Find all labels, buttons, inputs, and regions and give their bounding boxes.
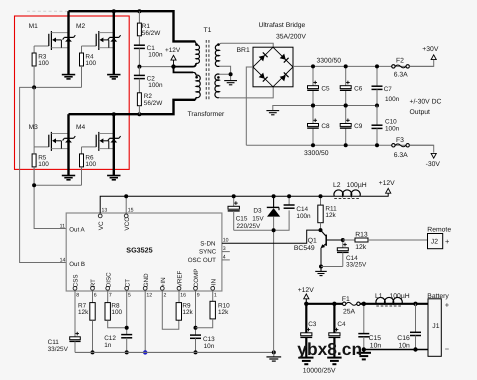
svg-text:C13: C13 [203,336,215,343]
svg-text:+IN: +IN [160,277,167,287]
label +12V arrow right [379,180,396,193]
svg-text:COMP: COMP [193,269,200,288]
svg-text:C9: C9 [354,123,363,130]
svg-text:J1: J1 [432,323,439,330]
wire: bridge left vertex to negative rail [246,67,253,145]
svg-text:33/25V: 33/25V [48,346,69,353]
svg-text:C5: C5 [321,85,330,92]
diode bridge bottom-right (points to right vertex) [280,72,289,81]
pin 5 CT of U1 [124,279,131,299]
diode bridge top-left (points to top vertex) [259,52,268,61]
wire: secondary bottom lead to bridge bottom [219,87,273,98]
wire: positive rail [293,65,434,67]
svg-text:6: 6 [94,293,97,299]
pin 10 S-DN of U1 [200,237,228,247]
svg-text:10000/25V: 10000/25V [303,367,336,374]
svg-text:M2: M2 [76,23,85,30]
svg-text:100n: 100n [385,96,400,103]
svg-text:56/2W: 56/2W [144,100,163,107]
node: dot C12 to bus [125,350,129,354]
transformer T1 secondary winding lower [215,74,219,98]
transformer T1 label [204,27,212,34]
wire: R8 bottom to CT node [108,320,127,328]
svg-text:15: 15 [128,208,134,214]
wire: negative rail [246,144,433,146]
svg-text:M3: M3 [29,124,38,131]
resistor R3 100 (gate M1) [33,46,35,53]
wire: M3/M4 rail (thick) to transformer primary B bottom [69,100,196,114]
svg-text:C8: C8 [321,123,330,130]
pin 4 OSC OUT of U1 [188,254,230,264]
node: dots C15 [362,302,366,352]
svg-text:100: 100 [85,161,96,168]
body zener diode of M1 [63,35,76,41]
svg-text:R13: R13 [355,231,368,238]
svg-text:100n: 100n [148,52,163,59]
wire: Q1 emitter down [320,248,322,271]
svg-text:BC549: BC549 [294,245,315,252]
wire: R13 to J2 [368,239,428,241]
op-amp U1: SG3525 PWM controller IC body [66,213,222,291]
svg-text:8: 8 [76,293,79,299]
svg-text:12k: 12k [182,309,193,316]
fuse F1 25A [342,296,360,315]
wire: faint remnant dashes left of top rail [27,10,68,12]
ground symbol at main bus [266,352,281,361]
wire: primary A bottom lead (thick) [174,63,197,66]
resistor R8 100 on DISC [107,291,109,303]
capacitor C14 100n [284,196,311,220]
wire: secondary center tap [219,66,230,80]
transformer T1 primary winding B [193,72,200,97]
pin 8 CSS of U1 [73,274,80,298]
svg-text:100: 100 [38,161,49,168]
inductor L1 100uH [375,293,410,306]
capacitor C1 100n [134,45,163,59]
transformer T1 primary winding A [194,41,199,63]
svg-text:−: − [445,344,450,353]
svg-text:25A: 25A [343,309,356,316]
node: dots C7 [375,64,379,107]
capacitor C7 100n [372,66,400,105]
svg-text:C16: C16 [397,335,410,342]
svg-text:12k: 12k [78,309,89,316]
svg-text:10: 10 [223,237,229,243]
svg-text:12k: 12k [218,309,229,316]
node: rail2 dot at R2 [137,112,141,116]
svg-text:10n: 10n [204,343,215,350]
svg-text:F2: F2 [396,58,404,65]
wire: primary B bottom (thick) joins rail2 [194,97,197,99]
wire: secondary top lead to bridge [219,43,273,47]
wire: M1 drain-source line to ground [67,11,69,74]
node: polarity dot secondary lower [217,76,220,79]
resistor R5 100 (gate M3) [32,154,49,168]
transistor M2 (MOSFET) [76,23,114,50]
inductor L2 100uH [333,182,367,198]
transistor Q1 BC549 [294,230,343,252]
node: dot tie at D3 [272,228,276,232]
svg-text:D3: D3 [253,208,262,215]
node: dot C16 bottom [413,347,417,351]
wire: CT stub down [126,291,128,335]
svg-text:+30V: +30V [422,46,439,53]
svg-text:F3: F3 [396,137,404,144]
wire: COMP pin 9 down [195,291,197,335]
connector J2 Remote [427,227,451,249]
capacitor C13 10n on COMP [190,335,215,352]
node: dot at C1/C2 junction [137,65,141,69]
svg-text:F1: F1 [342,296,350,303]
bridge rectifier BR1 [237,47,250,54]
svg-text:C3: C3 [308,321,317,328]
node: dot C10 bottom [375,143,379,147]
node: dot VCC rail [124,194,128,198]
ground at C3 (thick) [299,358,313,365]
node: dots for C8 [311,104,315,148]
connector J1 Battery [427,293,450,356]
node: rail dot at R1 [137,9,141,13]
capacitor C12 1n on CT [104,335,132,353]
wire: battery +12V rail (thick) [306,303,342,305]
label +30V arrow [422,46,439,60]
wire: top positive rail M1/M2 (thick) to transformer primary A [69,11,196,41]
zener diode D3 15V [273,196,275,207]
label 3300/50 bottom [304,150,329,157]
label Transformer [188,111,225,118]
svg-text:C10: C10 [385,118,397,125]
svg-text:100: 100 [38,60,49,67]
resistor R6 100 (gate M4) [81,147,83,154]
capacitor C16 10n [397,304,421,350]
svg-text:C15: C15 [369,335,382,342]
svg-text:M4: M4 [76,124,85,131]
node: dot at center tap [171,64,175,68]
svg-text:RT: RT [90,279,97,287]
svg-text:56/2W: 56/2W [142,30,161,37]
svg-text:1n: 1n [104,342,112,349]
body zener diode of M4 [108,136,121,142]
wire: D3 anode down to ground bus [273,216,275,352]
node: dot +12V at C3 [304,302,308,306]
svg-text:33/25V: 33/25V [346,261,367,268]
pin 12 GND of U1 [143,273,152,299]
node: dot D3 rail [272,194,276,198]
transformer core lines [206,40,209,101]
ground at M1 source [62,75,75,79]
svg-text:3300/50: 3300/50 [317,57,342,64]
fuse F2 6.3A [392,58,410,79]
wire: ground bus [75,351,274,353]
svg-text:SYNC: SYNC [199,249,217,256]
node: dot CT/R8 [125,326,129,330]
node: dot COMP/R10 [194,326,198,330]
svg-text:C6: C6 [354,85,363,92]
svg-text:+: + [445,237,450,246]
wire: M4 drain-source line to ground [113,114,115,175]
node: dot R11 rail [319,194,323,198]
svg-text:6.3A: 6.3A [394,152,408,159]
node: dot at C16 [413,302,417,306]
transformer T1 secondary winding upper [215,45,219,67]
pin 1 -IN of U1 [210,279,217,299]
svg-text:14: 14 [60,257,66,263]
svg-text:+12V: +12V [379,180,396,187]
capacitor C2 100n [138,67,140,76]
resistor R7 12k on RT [92,291,94,303]
node: dots for C9 [344,104,348,148]
wire: F3 to -30V arrow [409,145,433,152]
svg-text:Transformer: Transformer [188,111,225,118]
svg-text:+12V: +12V [165,47,181,54]
body zener diode of M3 [63,136,76,142]
svg-text:5: 5 [128,293,131,299]
node: polarity dot primary B [195,76,198,79]
resistor R13 12k [343,231,368,251]
diode bridge top-right (points to right vertex) [280,54,289,63]
pin 11 Out A of U1 [60,223,86,233]
svg-text:Remote: Remote [427,227,451,234]
wire: C-divider junction to center tap [139,66,173,68]
label 3300/50 top [317,57,342,64]
wire: R10 bottom to COMP node [196,319,213,328]
svg-text:12: 12 [146,293,152,299]
svg-text:+: + [445,301,450,310]
ground at secondary center tap [224,81,237,85]
label +/-30V DC Output [410,99,442,117]
capacitor C4 10000/25V [333,304,335,333]
wire: gate bus M1/M2 row [20,87,82,262]
node: dot gate bus A at R3 [32,85,36,89]
node: dot C15 rail [232,194,236,198]
svg-text:100µH: 100µH [390,293,410,300]
capacitor C9 3300/50 electrolytic [345,106,347,146]
svg-text:VC: VC [98,221,105,230]
capacitor C5 3300/50 electrolytic [312,66,314,105]
wire: C15/D3/C14 lower tie [234,210,289,230]
svg-text:C11: C11 [48,339,60,346]
svg-text:BR1: BR1 [237,47,250,54]
svg-text:3300/50: 3300/50 [304,150,329,157]
svg-text:M1: M1 [29,23,38,30]
resistor R11 12k [320,196,322,205]
ground at Q1 emitter [315,271,327,275]
svg-text:CSS: CSS [73,274,80,287]
svg-text:C15: C15 [236,216,248,223]
svg-text:7: 7 [109,293,112,299]
svg-text:15V: 15V [252,216,264,223]
node: dot emitter/C14 [319,265,323,269]
pin 16 VREF of U1 [177,270,186,298]
red highlight box around MOSFET bridge [15,16,130,169]
svg-text:10n: 10n [399,342,411,349]
svg-text:GND: GND [143,273,150,287]
node: polarity dot secondary upper [217,43,220,46]
svg-text:Battery: Battery [427,293,449,300]
svg-text:Out A: Out A [69,227,85,234]
svg-text:S-DN: S-DN [200,240,215,247]
node: dots for C5 [311,64,315,107]
wire: F2 to +30V arrow [409,60,433,67]
svg-text:C7: C7 [384,86,393,93]
capacitor C14 33/25V [342,240,344,248]
svg-text:J2: J2 [431,239,438,246]
pin 3 SYNC of U1 [199,246,230,256]
svg-text:C4: C4 [337,321,346,328]
label +12V arrow battery [298,287,315,304]
svg-text:+/-30V DC: +/-30V DC [410,99,442,106]
capacitor C15 10n (output filter) [358,304,381,350]
capacitor C15 220/25V [233,196,235,206]
node: dot R11/Q1 collector [319,228,323,232]
watermark ybx8.cn [297,339,362,359]
node: dot bus at D3 column [272,350,276,354]
svg-text:Output: Output [410,109,431,116]
transistor M3 (MOSFET) [29,124,69,151]
label -30V arrow [426,153,441,168]
wire: +IN pin 2 bend to R9 bottom [162,291,179,329]
wire: center tap to primary B (thick) [174,67,194,73]
transistor M4 (MOSFET) [76,124,114,151]
pin 15 VCC of U1 [124,196,134,230]
svg-text:6.3A: 6.3A [394,72,408,79]
node: rail2 dot at M4 [112,112,116,116]
pin 14 Out B of U1 [60,257,85,268]
label 10000/25V [303,367,336,374]
ground at M4 source [107,176,120,180]
bridge BR1 outline square and diamond [253,47,293,87]
diode bridge bottom-left (points to bottom vertex) [259,73,268,82]
body zener diode of M2 [108,35,121,41]
svg-text:VREF: VREF [177,270,184,287]
svg-text:35A/200V: 35A/200V [276,34,306,41]
node: dot Q1 base / R13 [341,238,345,242]
svg-text:9: 9 [197,293,200,299]
label +12V arrow at transformer center tap [165,47,181,65]
wire: GND pin 12 to ground bus [144,291,146,352]
wire: mid rail with ground [273,106,377,111]
transistor M1 (MOSFET) [29,23,69,50]
svg-text:Out B: Out B [69,261,85,268]
capacitor C10 100n [372,106,400,146]
node: blue junction dot GND/bus [143,350,147,354]
svg-text:220/25V: 220/25V [237,223,262,230]
svg-text:2: 2 [164,293,167,299]
svg-text:Ultrafast Bridge: Ultrafast Bridge [259,22,306,29]
ground below battery minus rail (thick) [357,350,371,360]
svg-text:CT: CT [124,279,131,287]
svg-text:11: 11 [60,223,65,229]
capacitor C6 3300/50 electrolytic [345,66,347,105]
svg-text:100µH: 100µH [347,182,367,189]
svg-text:12k: 12k [325,212,336,219]
node: dot at C4 [332,302,336,306]
wire: battery minus rail [364,349,428,351]
svg-text:L2: L2 [333,182,341,189]
svg-text:100n: 100n [296,213,311,220]
capacitor C11 33/25V on CSS [74,291,76,337]
svg-text:VCC: VCC [124,217,131,231]
resistor R2 56/2W [138,79,140,93]
svg-text:OSC OUT: OSC OUT [188,257,216,264]
svg-text:+12V: +12V [298,287,315,294]
resistor R10 12k on -IN [212,291,214,301]
wire: M3 drain-source line to ground [67,114,69,175]
svg-text:12k: 12k [355,244,367,251]
svg-text:DISC: DISC [105,272,112,287]
pin 13 VC of U1 [98,208,108,231]
node: dot gate bus B at R5 [32,183,36,187]
wire: F1 to J1 (thick) [360,303,428,305]
svg-text:10n: 10n [370,342,382,349]
node: dot R7 to ground bus [91,350,95,354]
svg-text:16: 16 [180,293,186,299]
svg-text:100: 100 [85,60,96,67]
capacitor C8 3300/50 electrolytic [312,106,314,146]
pin 7 DISC of U1 [105,272,112,299]
node: dot secondary center tap [229,72,233,76]
resistor R1 56/2W [138,11,140,23]
label Ultrafast Bridge 35A/200V [259,22,307,40]
svg-text:1: 1 [214,293,217,299]
svg-text:13: 13 [102,208,108,214]
node: dot C13 to bus [194,350,198,354]
svg-text:-IN: -IN [210,279,217,287]
node: rail dot at M2 [112,9,116,13]
ground at mid rail [266,111,279,115]
svg-text:-30V: -30V [426,161,441,168]
wire: R3 bottom to gate bus A [33,66,35,87]
capacitor C3 10000/25V [305,304,307,333]
wire: M2 drain-source line to ground [113,11,115,74]
svg-text:C14: C14 [296,206,308,213]
svg-text:Q1: Q1 [308,237,317,244]
svg-text:ybx8.cn: ybx8.cn [297,339,362,359]
wire: gate bus M3/M4 row [34,184,81,186]
svg-text:100: 100 [111,309,122,316]
ground at C4 (thick) [327,358,341,365]
svg-text:100n: 100n [148,82,163,89]
wire: +12V rail above SG3525 [100,193,388,213]
wire: S-DN to R11 bottom node [222,230,321,243]
node: polarity dot primary A [195,43,198,46]
wire: vertical from R3 node down to Out A pin [34,87,66,228]
svg-text:100n: 100n [385,125,400,132]
svg-text:SG3525: SG3525 [126,246,152,255]
resistor R4 100 (gate M2) [81,46,83,53]
fuse F3 6.3A [392,137,410,159]
ground at M3 source [62,176,75,180]
pin 9 COMP of U1 [193,269,200,299]
svg-text:L1: L1 [375,293,383,300]
svg-text:T1: T1 [204,27,212,34]
pin 6 RT of U1 [90,279,97,299]
resistor R9 12k on VREF [178,291,180,303]
pin 2 +IN of U1 [160,277,167,298]
node: dot C14 rail [287,194,291,198]
node: dots for C6 [344,64,348,107]
ground at M2 source [107,75,120,79]
